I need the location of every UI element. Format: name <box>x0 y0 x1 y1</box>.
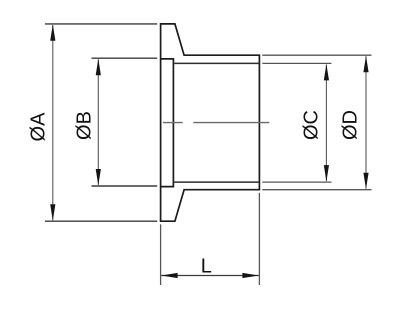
svg-text:ØB: ØB <box>74 111 96 140</box>
arrow B up <box>96 59 101 75</box>
arrow C up <box>324 64 329 80</box>
socket recess (diam B step) <box>161 59 174 187</box>
bore bottom line (diam C) <box>173 181 259 183</box>
extension lines <box>45 24 157 221</box>
dim line B <box>97 59 99 185</box>
dim C ext bottom <box>262 181 331 183</box>
part outline (ferrule silhouette) <box>161 24 260 221</box>
arrowheads <box>50 24 368 278</box>
dim L ext left <box>160 224 162 285</box>
dim D ext bottom <box>262 189 371 191</box>
dimension lines <box>53 25 366 220</box>
dim D ext top <box>262 54 371 56</box>
dim L ext right <box>258 193 260 285</box>
svg-text:ØD: ØD <box>340 110 362 140</box>
dim B ext top <box>92 57 158 59</box>
dim line D <box>365 56 367 188</box>
arrow L left <box>161 273 177 278</box>
arrow A up <box>50 24 55 40</box>
arrow D up <box>363 56 368 72</box>
arrow A down <box>50 204 55 220</box>
arrow D down <box>363 173 368 189</box>
dim line A <box>52 25 54 220</box>
svg-text:L: L <box>201 256 212 278</box>
svg-text:ØC: ØC <box>301 110 323 140</box>
dim A ext bottom <box>45 220 157 222</box>
dim A ext top <box>45 23 157 25</box>
svg-text:ØA: ØA <box>28 112 50 142</box>
arrow C down <box>324 165 329 181</box>
dim line C <box>325 65 327 182</box>
dim C ext top <box>262 62 331 64</box>
arrow L right <box>242 273 258 278</box>
centerline <box>163 122 269 124</box>
dim line L <box>161 275 259 277</box>
bore top line (diam C) <box>173 62 259 64</box>
arrow B down <box>96 169 101 185</box>
dim B ext bottom <box>92 185 158 187</box>
